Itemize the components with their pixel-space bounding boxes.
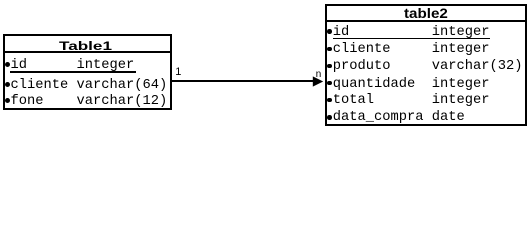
- table table2 row data_compra date: [325, 111, 465, 125]
- table table2 row id underline: [333, 38, 490, 40]
- table Table1 row fone varchar(12): [2, 95, 167, 109]
- attribute bullet Table1: [5, 98, 10, 103]
- table Table1 box: [3, 34, 172, 110]
- attribute bullet table2: [327, 64, 332, 69]
- attribute bullet table2: [327, 29, 332, 34]
- connector wire from Table1 to table2: [172, 80, 314, 82]
- table Table1 header divider: [3, 51, 172, 53]
- table table2 row quantidade integer: [325, 78, 490, 92]
- table table2 row cliente integer: [325, 43, 490, 57]
- attribute bullet Table1: [5, 82, 10, 87]
- table Table1 row id underline: [10, 71, 136, 73]
- attribute bullet Table1: [5, 62, 10, 67]
- attribute bullet table2: [327, 47, 332, 52]
- table table2 row id integer (primary key): [325, 26, 490, 40]
- table table2 row total integer: [325, 94, 490, 108]
- table Table1 row id integer (primary key): [2, 59, 134, 73]
- table Table1 row cliente varchar(64): [2, 79, 167, 93]
- table Table1 header text: [59, 40, 112, 52]
- attribute bullet table2: [327, 98, 332, 103]
- table table2 row produto varchar(32): [325, 60, 523, 74]
- multiplicity label 1: [175, 68, 181, 77]
- attribute bullet table2: [327, 81, 332, 86]
- connector arrowhead: [312, 75, 326, 88]
- table table2 box: [325, 4, 527, 126]
- table table2 header text: [404, 7, 448, 21]
- multiplicity label n: [316, 72, 322, 80]
- attribute bullet table2: [327, 115, 332, 120]
- table table2 header divider: [325, 20, 527, 22]
